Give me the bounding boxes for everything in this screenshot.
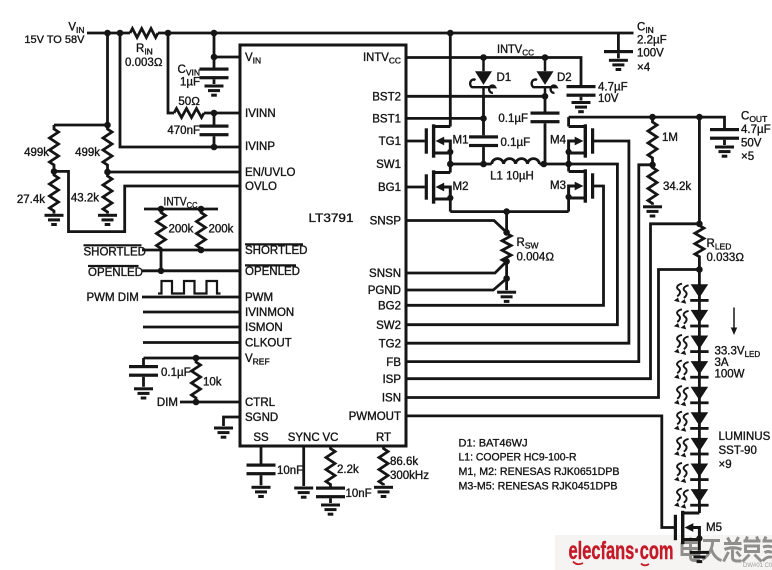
LED D9 [674,437,709,457]
node left divider midpoint [51,168,58,175]
ground SGND [214,427,233,439]
svg-text:1µF: 1µF [180,77,200,89]
svg-text:BG1: BG1 [378,182,401,194]
resistor 499k left [50,125,59,171]
svg-text:M3-M5: RENESAS RJK0451DPB: M3-M5: RENESAS RJK0451DPB [459,480,618,492]
node EN/UVLO junction [104,169,111,176]
svg-text:M2: M2 [453,181,469,193]
svg-text:ISP: ISP [382,374,401,386]
capacitor 0.1uF at VREF [142,358,145,365]
svg-text:470nF: 470nF [167,125,200,137]
svg-text:SST-90: SST-90 [719,445,757,457]
wire SNSP [406,221,507,233]
svg-text:SNSP: SNSP [370,216,402,228]
wire VIN rail to divider [54,33,108,125]
svg-text:10nF: 10nF [277,465,303,477]
capacitor 4.7uF 10V [567,85,596,97]
svg-text:FB: FB [386,357,401,369]
LED D10 [674,463,709,483]
wire CVIN branch [213,33,216,68]
watermark hanzi 3 [724,537,742,562]
svg-text:50V: 50V [741,138,762,150]
svg-text:DW#01 C01: DW#01 C01 [743,563,772,569]
svg-text:200k: 200k [209,224,234,236]
capacitor 10nF VC [316,487,345,499]
svg-text:0.1µF: 0.1µF [498,113,528,125]
node VIN pin junction [211,54,218,61]
wire DIM / CTRL [180,401,240,404]
wire 50ohm branch [168,33,240,113]
ground M5 [690,551,709,563]
wire OVLO jog [54,171,240,231]
svg-text:SW2: SW2 [376,320,401,332]
svg-text:SW1: SW1 [376,159,401,171]
ground COUT [715,146,734,158]
diode D2 [532,58,557,97]
svg-text:ISMON: ISMON [245,322,283,334]
node 200k left top [158,206,165,213]
resistor 43.2k [103,172,112,214]
node D2 anode [542,54,549,61]
wire TG2 [406,141,629,343]
resistor 200k left [157,209,166,271]
svg-text:34.2k: 34.2k [663,181,691,193]
svg-text:PWMOUT: PWMOUT [349,411,401,423]
capacitor COUT [710,128,739,140]
svg-text:0.033Ω: 0.033Ω [707,252,745,264]
wire INTVCC [406,58,581,86]
svg-text:SHORTLED: SHORTLED [84,247,146,259]
transistor M3 [566,169,595,202]
ground 34.2k [643,205,662,217]
watermark hanzi 5 [763,537,772,562]
svg-text:200k: 200k [169,224,194,236]
svg-text:100V: 100V [637,48,664,60]
wire VIN rail [87,32,634,35]
svg-text:4.7µF: 4.7µF [741,124,771,136]
svg-text:M5: M5 [706,522,722,534]
node D1 anode [480,54,487,61]
watermark hanzi 2 [703,541,722,561]
resistor 86.6k RT [379,446,388,485]
svg-text:ISN: ISN [382,393,401,405]
node divider top junction [104,122,111,129]
svg-text:10V: 10V [598,93,619,105]
svg-text:OPENLED: OPENLED [88,267,143,279]
svg-text:EN/UVLO: EN/UVLO [245,167,296,179]
transistor M2 [425,170,454,203]
svg-text:DIM: DIM [157,397,178,409]
LED D4 [674,309,709,329]
svg-text:LUMINUS: LUMINUS [719,431,771,443]
svg-text:CLKOUT: CLKOUT [245,338,292,350]
LED D7 [674,386,709,406]
svg-text:0.004Ω: 0.004Ω [517,252,555,264]
svg-text:SYNC: SYNC [288,432,320,444]
LED D8 [674,412,709,432]
svg-text:RT: RT [376,432,391,444]
op-amp / IC U1 LT3791 box [240,45,406,446]
svg-text:BG2: BG2 [378,301,401,313]
LED D5 [674,335,709,355]
node 200k right top [198,206,205,213]
svg-text:BST2: BST2 [372,92,401,104]
wire FB [406,165,653,362]
svg-text:10k: 10k [203,377,222,389]
logo squiggle 1 [573,562,583,565]
svg-text:M3: M3 [550,180,566,192]
watermark band [555,535,772,570]
resistor 2.2k VC [326,446,335,487]
wire SYNC pin [302,446,305,486]
LED D11 [674,489,709,509]
svg-text:elecfans·com: elecfans·com [569,537,674,565]
wire SHORTLED [142,249,240,252]
svg-text:BST1: BST1 [372,114,401,126]
ground SYNC [294,487,313,499]
capacitor 470nF [213,113,216,125]
svg-text:L1 10µH: L1 10µH [490,171,534,183]
transistor M5 [674,511,703,544]
arrow LED current [733,308,735,329]
resistor 10k [192,358,201,402]
node IVINP junction [211,144,218,151]
wire ISN [406,270,699,398]
svg-text:×4: ×4 [637,62,651,74]
node VIN source label [24,22,85,47]
diode D1 [470,58,495,97]
wire BST2 [406,95,545,98]
transistor M1 [425,124,454,157]
svg-text:1M: 1M [662,132,678,144]
wire power return line [450,210,568,213]
svg-text:43.2k: 43.2k [71,193,99,205]
wire VIN pin [214,56,240,59]
wire BST1 [406,117,484,120]
resistor 200k right [197,209,206,250]
svg-text:CTRL: CTRL [245,397,276,409]
capacitor 0.1uF BST1 boot [482,118,485,135]
svg-text:SNSN: SNSN [369,268,401,280]
svg-text:LT3791: LT3791 [309,213,354,225]
wire SS pin [260,446,263,464]
capacitor CVIN [200,68,229,80]
svg-text:0.1µF: 0.1µF [501,137,531,149]
transistor M4 [566,124,595,157]
svg-text:SS: SS [253,432,269,444]
wire VREF [144,357,241,360]
ground RT [374,486,393,498]
wire LED string [698,270,701,514]
svg-text:×9: ×9 [719,459,732,471]
wire EN/UVLO [108,171,241,174]
wire OPENLED [142,269,240,272]
ground 27.4k [45,214,64,226]
LED D3 [674,284,709,304]
svg-text:100W: 100W [715,369,745,381]
svg-text:L1: COOPER HC9-100-R: L1: COOPER HC9-100-R [459,452,577,464]
svg-text:SGND: SGND [245,412,278,424]
wire BG2 [406,186,604,305]
svg-text:300kHz: 300kHz [390,470,429,482]
svg-text:50Ω: 50Ω [178,96,200,108]
svg-text:86.6k: 86.6k [390,456,418,468]
svg-text:4.7µF: 4.7µF [598,82,628,94]
svg-text:SHORTLED: SHORTLED [245,245,307,257]
svg-text:IVINP: IVINP [245,141,275,153]
ground 4.7uF [572,101,591,113]
ground VREF cap [134,387,153,399]
capacitor 0.1uF BST2 boot [544,96,547,111]
svg-text:10nF: 10nF [346,488,372,500]
svg-text:TG2: TG2 [379,338,401,350]
resistor RIN [130,29,158,38]
svg-text:3A: 3A [715,357,729,369]
PWM waveform symbol [158,281,221,294]
svg-text:OVLO: OVLO [245,181,277,193]
wire ISP [406,224,699,379]
svg-text:2.2k: 2.2k [337,464,359,476]
svg-text:499k: 499k [24,147,49,159]
logo squiggle 2 [641,564,649,566]
resistor RSW [502,212,511,279]
resistor 1M [648,117,657,165]
resistor 50ohm [174,109,204,118]
wire PWM [142,296,240,299]
svg-text:M4: M4 [550,135,567,147]
wire SW2 [406,163,617,325]
LED D6 [674,361,709,381]
wire IVINP tap [120,33,240,147]
wire SNSN [406,261,507,273]
svg-text:VC: VC [323,432,339,444]
resistor RLED [695,117,704,269]
svg-text:499k: 499k [75,147,100,159]
ground RSW [505,279,508,291]
svg-text:0.003Ω: 0.003Ω [125,57,163,69]
wire PWMOUT [406,416,674,528]
svg-text:D1: BAT46WJ: D1: BAT46WJ [459,437,528,449]
svg-text:M1: M1 [453,135,469,147]
wire ISMON stub [143,326,240,329]
ground CVIN [205,85,224,97]
svg-text:TG1: TG1 [379,136,401,148]
ground SS [252,486,271,498]
wire SGND [224,417,241,426]
ground VC [321,504,340,516]
wire VOUT rail [569,117,725,128]
svg-text:D1: D1 [497,72,512,84]
watermark hanzi 4 [743,537,762,562]
wire CLKOUT stub [143,341,240,344]
svg-text:×5: ×5 [741,151,754,163]
inductor L1 [492,159,540,164]
capacitor 10nF SS [247,464,276,476]
watermark hanzi 1 [682,538,700,561]
svg-text:2.2µF: 2.2µF [637,35,667,47]
svg-text:27.4k: 27.4k [17,194,45,206]
svg-text:PGND: PGND [368,285,401,297]
wire PGND [406,279,507,291]
wire INTVCC pullup bar [144,208,218,211]
wire SW1 node [450,163,618,166]
svg-text:M1, M2: RENESAS RJK0651DPB: M1, M2: RENESAS RJK0651DPB [459,466,620,478]
svg-text:15V TO 58V: 15V TO 58V [24,34,85,46]
svg-text:IVINMON: IVINMON [245,307,294,319]
junction dots on VIN rail [104,30,111,37]
resistor 34.2k [648,165,657,205]
node IVINN junction [211,110,218,117]
wire BG1 [406,186,425,189]
resistor 27.4k [50,171,59,213]
svg-text:0.1µF: 0.1µF [161,367,191,379]
ground 43.2k [98,214,117,226]
svg-text:OPENLED: OPENLED [245,266,300,278]
svg-text:IVINN: IVINN [245,108,276,120]
wire TG1 [406,140,425,143]
capacitor CIN [617,33,620,50]
svg-text:PWM DIM: PWM DIM [87,292,139,304]
svg-text:PWM: PWM [245,292,273,304]
svg-text:D2: D2 [557,72,572,84]
wire IVINMON stub [143,311,240,314]
resistor 499k right [103,125,112,172]
